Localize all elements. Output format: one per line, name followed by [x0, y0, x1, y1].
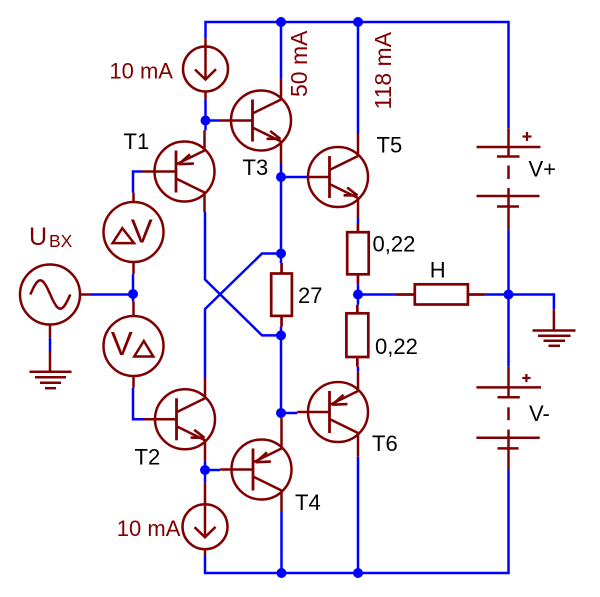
wire node to T4 base	[205, 469, 220, 472]
wire T3 emitter node to T5 base	[281, 176, 308, 179]
wire H to right node and ground	[485, 295, 554, 310]
svg-text:T1: T1	[124, 129, 150, 154]
wire T3 collector column	[280, 22, 283, 79]
junction dot node X bottom 27	[276, 330, 286, 340]
labels black	[124, 129, 557, 515]
wire V+ bottom to right node	[507, 230, 510, 367]
junction dot node rail T6 collector	[353, 568, 363, 578]
wire output node to H	[358, 293, 395, 296]
junction dot node X top 27	[276, 249, 286, 259]
svg-text:V: V	[111, 325, 133, 362]
wire T2 collector to top X dot	[205, 254, 281, 378]
resistor R0.22 top	[347, 223, 369, 284]
wire input node column	[132, 274, 135, 301]
svg-text:T3: T3	[243, 155, 269, 180]
transistor T2	[144, 378, 215, 461]
wire T4 emitter node to T6 base	[281, 412, 297, 415]
svg-text:T5: T5	[377, 133, 403, 158]
svg-text:T6: T6	[372, 431, 398, 456]
svg-text:T2: T2	[135, 445, 161, 470]
ground right	[533, 310, 576, 346]
sine source Uin	[20, 265, 91, 338]
wire source to ground	[49, 337, 52, 351]
svg-text:V-: V-	[529, 401, 550, 426]
transistor T6	[297, 372, 368, 457]
wire dV to T1 base	[133, 172, 142, 193]
current source I2 10mA	[183, 483, 228, 555]
svg-text:10 mA: 10 mA	[109, 58, 173, 83]
meter Vd	[104, 301, 164, 387]
meter dV	[104, 193, 164, 275]
transistor T3	[220, 79, 291, 163]
junction dot node right H ground	[504, 290, 514, 300]
junction dot node rail T5 collector	[353, 17, 363, 27]
transistor T4	[220, 418, 291, 511]
wire source to input node	[91, 293, 134, 296]
battery V- plus sign	[522, 374, 530, 382]
junction dot node B1 source T1 T3 base	[201, 116, 211, 126]
battery V+ plus sign	[523, 132, 532, 141]
svg-text:0,22: 0,22	[375, 334, 418, 359]
svg-text:0,22: 0,22	[373, 232, 416, 257]
resistor H	[395, 284, 485, 304]
labels maroon	[29, 30, 396, 541]
svg-text:50 mA: 50 mA	[286, 30, 312, 97]
svg-text:V+: V+	[529, 157, 557, 182]
transistor T5	[308, 134, 369, 218]
wire T1 collector to bottom X dot	[205, 212, 281, 335]
junction dot node rail T3 collector	[276, 17, 286, 27]
wire Vd to T2 base	[133, 388, 144, 420]
junction dot node T2 emitter T4 base	[200, 465, 210, 475]
svg-text:V: V	[131, 213, 153, 250]
junction dot node input Uin meters	[128, 289, 138, 299]
wire node B1 to T3 base	[206, 119, 221, 122]
svg-text:27: 27	[298, 283, 322, 308]
svg-text:10 mA: 10 mA	[117, 516, 181, 541]
junction dot node T4 emitter T6 base	[276, 408, 286, 418]
svg-text:BX: BX	[49, 231, 73, 251]
svg-text:T4: T4	[295, 490, 321, 515]
resistor R0.22 bot	[346, 305, 368, 367]
wire T6 collector to rail	[357, 457, 360, 573]
wire top V+ rail	[206, 22, 509, 128]
wire resistor to T6 emitter	[357, 367, 360, 372]
wire 27 bottom to T4 emitter node	[280, 327, 283, 419]
svg-text:H: H	[430, 258, 446, 283]
battery V-	[476, 367, 541, 470]
junction dot node T3 emitter T5 base	[276, 172, 286, 182]
wire node B1 column	[204, 99, 207, 130]
wire T5 emitter to resistor	[357, 218, 360, 223]
wire T4 collector to rail	[280, 512, 283, 574]
transistor T1	[142, 130, 215, 212]
wire T2 emitter node column	[204, 461, 207, 483]
junction dot node output	[353, 290, 363, 300]
resistor R27	[271, 263, 292, 327]
wire T5 collector column	[357, 22, 360, 134]
wire bottom V- rail	[205, 470, 509, 573]
wire output node column	[357, 284, 360, 305]
junction dot node rail T4 collector	[277, 568, 287, 578]
battery V+	[477, 128, 541, 229]
ground left	[30, 352, 72, 389]
svg-text:118 mA: 118 mA	[370, 31, 396, 109]
svg-text:U: U	[29, 223, 47, 251]
current source I1 10mA	[183, 38, 228, 99]
wire T3 emitter to 27 top	[280, 163, 283, 263]
